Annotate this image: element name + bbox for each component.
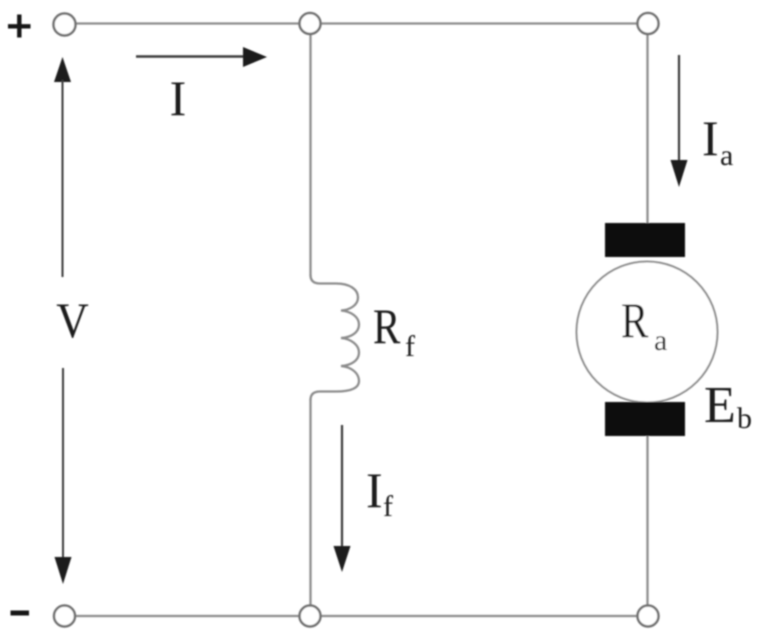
terminal + (top left) — [54, 14, 76, 36]
svg-text:E: E — [704, 377, 736, 434]
motor armature circle Ra — [577, 262, 718, 403]
plus terminal label — [8, 15, 31, 38]
inductor Rf coil — [311, 275, 360, 400]
svg-text:f: f — [383, 490, 393, 523]
arrow V down head — [55, 557, 72, 584]
arrow Ia shaft — [678, 55, 680, 163]
svg-text:I: I — [366, 462, 383, 518]
wire field branch lower — [309, 399, 311, 606]
svg-text:a: a — [654, 324, 667, 357]
arrow Ia head — [671, 160, 688, 187]
svg-text:V: V — [56, 294, 88, 349]
wire field branch upper — [309, 34, 311, 276]
wire armature branch upper — [646, 34, 648, 224]
svg-text:R: R — [621, 292, 649, 348]
arrow V down shaft — [62, 368, 64, 559]
svg-text:R: R — [373, 298, 401, 354]
node top right — [638, 13, 659, 34]
svg-text:a: a — [720, 139, 733, 172]
node bottom middle — [300, 606, 321, 627]
brush upper (black rectangle) — [605, 223, 685, 257]
arrow V up shaft — [62, 80, 64, 277]
arrow I shaft — [136, 55, 246, 57]
terminal - (bottom left) — [54, 606, 75, 627]
arrow I head — [243, 47, 267, 67]
wire bottom — [75, 615, 638, 617]
node top middle — [300, 13, 321, 34]
arrow If shaft — [341, 425, 343, 549]
svg-text:I: I — [702, 110, 719, 166]
brush lower (black rectangle) — [605, 402, 685, 436]
svg-text:f: f — [405, 330, 415, 363]
minus terminal label — [11, 611, 30, 616]
node bottom right — [638, 606, 659, 627]
wire armature branch lower — [646, 436, 648, 606]
arrow If head — [334, 546, 351, 572]
svg-text:I: I — [170, 70, 187, 126]
wire top — [75, 22, 638, 24]
arrow V up head — [54, 57, 71, 82]
svg-text:b: b — [737, 402, 752, 435]
